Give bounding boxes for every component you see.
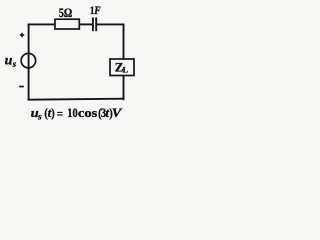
polarity - mark bbox=[19, 86, 24, 88]
capacitor C 1F plate left bbox=[92, 17, 94, 31]
svg-text:10: 10 bbox=[67, 106, 77, 120]
svg-text:V: V bbox=[112, 106, 124, 120]
polarity + mark bbox=[20, 33, 24, 37]
wire: ZL to bottom-right corner bbox=[123, 76, 125, 101]
label ZL bbox=[115, 59, 128, 74]
svg-text:F: F bbox=[93, 4, 101, 17]
wire: left side, bottom corner up through source to top corner bbox=[28, 24, 30, 101]
svg-text:s: s bbox=[37, 113, 42, 123]
svg-text:s: s bbox=[12, 59, 17, 69]
svg-text:u: u bbox=[5, 53, 13, 68]
svg-text:5Ω: 5Ω bbox=[59, 6, 73, 20]
load ZL box bbox=[110, 59, 134, 76]
equation us(t)=10cos(3t)V bbox=[31, 105, 124, 122]
svg-text:L: L bbox=[123, 66, 128, 75]
svg-text:=: = bbox=[57, 106, 63, 121]
wire: bottom horizontal bbox=[28, 99, 125, 100]
label 1F bbox=[90, 4, 101, 17]
label us bbox=[5, 53, 17, 69]
source us circle bbox=[21, 53, 36, 68]
svg-text:): ) bbox=[51, 106, 55, 120]
capacitor C 1F plate right bbox=[95, 17, 97, 31]
svg-text:cos: cos bbox=[78, 106, 98, 120]
wire: top-left horizontal segment bbox=[28, 23, 56, 25]
resistor R 5ohm body bbox=[55, 19, 79, 29]
wire: resistor to capacitor bbox=[79, 23, 93, 25]
wire: capacitor to top-right corner bbox=[96, 23, 124, 25]
wire: right side, corner down to ZL bbox=[123, 24, 125, 60]
